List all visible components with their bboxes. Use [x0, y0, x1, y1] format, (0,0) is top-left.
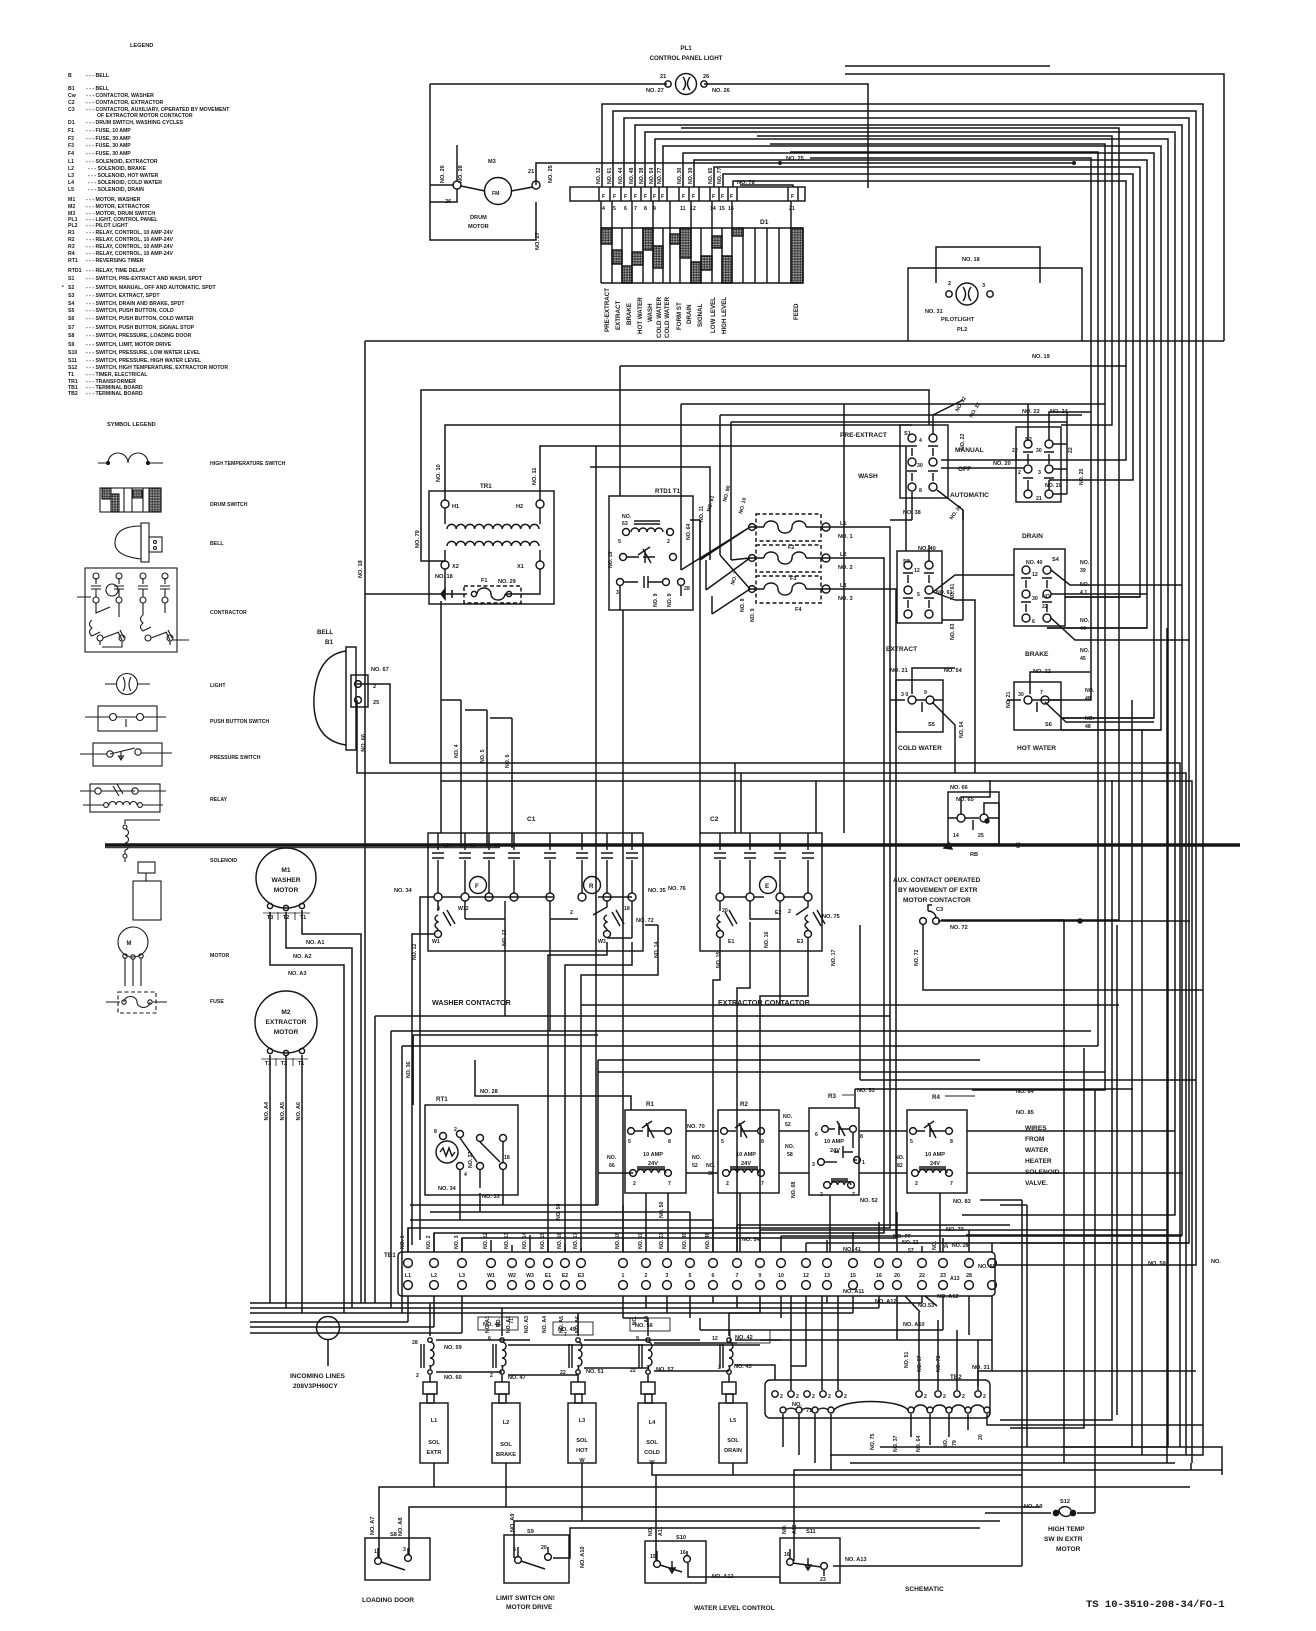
svg-text:NO. 25: NO. 25	[786, 156, 804, 162]
svg-text:NO. 66: NO. 66	[361, 734, 367, 752]
svg-text:20: 20	[894, 1273, 900, 1279]
svg-text:W2: W2	[508, 1273, 516, 1279]
svg-text:R: R	[589, 883, 594, 890]
wire M3 loop	[430, 84, 1074, 240]
svg-text:52: 52	[692, 1163, 698, 1169]
LEGEND-TEXT	[62, 43, 230, 397]
bell B1	[314, 647, 368, 750]
svg-text:LEGEND: LEGEND	[130, 43, 153, 49]
bottom switch labels	[362, 1499, 1085, 1612]
svg-text:21: 21	[528, 169, 534, 175]
svg-text:L2: L2	[503, 1420, 510, 1426]
PL2 labels	[925, 257, 1050, 360]
svg-text:7: 7	[761, 1181, 764, 1187]
svg-text:HIGH TEMPERATURE SWITCH: HIGH TEMPERATURE SWITCH	[210, 461, 286, 467]
svg-text:- - - FUSE, 30 AMP: - - - FUSE, 30 AMP	[86, 143, 131, 149]
wire relay top bundle	[413, 1035, 980, 1205]
svg-text:- - - SWITCH, MANUAL, OFF AND: - - - SWITCH, MANUAL, OFF AND AUTOMATIC,…	[86, 285, 217, 291]
svg-text:2: 2	[416, 1373, 419, 1379]
svg-text:LIMIT SWITCH ON!: LIMIT SWITCH ON!	[496, 1595, 555, 1602]
wire bell NO. 67	[357, 684, 1180, 1447]
wire bus D1 cell 4 to right bus	[602, 104, 1203, 1455]
svg-text:BELL: BELL	[317, 629, 333, 636]
svg-text:NO. A11: NO. A11	[843, 1289, 864, 1295]
svg-text:NO. 48: NO. 48	[629, 167, 635, 184]
S5 S6 labels	[890, 668, 1095, 752]
svg-text:F: F	[661, 194, 664, 200]
svg-text:7: 7	[736, 1273, 739, 1279]
svg-text:12: 12	[914, 568, 920, 574]
svg-text:2: 2	[962, 1394, 965, 1400]
svg-text:24V: 24V	[648, 1161, 658, 1167]
svg-text:NO. 8: NO. 8	[740, 598, 746, 612]
R4 labels	[895, 1089, 1060, 1205]
svg-text:W1: W1	[487, 1273, 495, 1279]
svg-text:NO. 72: NO. 72	[936, 1355, 942, 1372]
svg-text:NO. 30: NO. 30	[677, 167, 683, 184]
svg-text:48: 48	[1085, 696, 1091, 702]
svg-text:B1: B1	[68, 86, 75, 92]
svg-text:L1: L1	[443, 843, 449, 849]
svg-text:NO. A5: NO. A5	[280, 1102, 286, 1120]
svg-text:B1: B1	[325, 639, 333, 646]
svg-text:NO. 25: NO. 25	[1079, 468, 1085, 485]
svg-text:79: 79	[952, 1440, 958, 1446]
svg-text:NO. 70: NO. 70	[687, 1124, 705, 1130]
switch S2	[1016, 412, 1067, 502]
svg-text:7: 7	[634, 206, 637, 212]
svg-text:FROM: FROM	[1025, 1136, 1045, 1143]
svg-text:R4: R4	[932, 1094, 940, 1101]
svg-text:- - - SWITCH, PUSH BUTTON, COL: - - - SWITCH, PUSH BUTTON, COLD	[86, 308, 174, 314]
svg-text:2: 2	[796, 1394, 799, 1400]
svg-text:F2: F2	[788, 545, 795, 551]
svg-text:NO. 45: NO. 45	[682, 1232, 688, 1249]
fuse F1	[438, 586, 521, 603]
svg-text:NO. 59: NO. 59	[444, 1345, 462, 1351]
solenoid L1	[420, 1382, 448, 1463]
svg-text:21: 21	[789, 206, 795, 212]
switch S5	[890, 680, 943, 732]
svg-text:SOL: SOL	[428, 1440, 440, 1446]
wire upper TB1 bundle extensions	[410, 1205, 560, 1220]
svg-text:- - - FUSE, 30 AMP: - - - FUSE, 30 AMP	[86, 136, 131, 142]
svg-text:2: 2	[788, 909, 791, 915]
svg-text:S8: S8	[390, 1532, 397, 1538]
svg-text:F1: F1	[68, 128, 74, 134]
svg-text:TB1: TB1	[384, 1252, 396, 1259]
svg-text:SW IN EXTR: SW IN EXTR	[1044, 1536, 1083, 1543]
svg-text:T1: T1	[300, 915, 307, 921]
push button switch symbol	[98, 706, 157, 731]
svg-text:NO. A6: NO. A6	[296, 1102, 302, 1120]
svg-text:10: 10	[778, 1273, 784, 1279]
wire TB1 upper bundle	[480, 1205, 1189, 1243]
svg-text:NO. 77: NO. 77	[657, 167, 663, 184]
svg-text:14: 14	[953, 833, 959, 839]
svg-text:4: 4	[437, 906, 440, 912]
svg-text:E3: E3	[797, 939, 803, 945]
svg-text:CONTRACTOR: CONTRACTOR	[210, 610, 247, 616]
svg-text:3: 3	[666, 1273, 669, 1279]
svg-text:NO. 51: NO. 51	[904, 1351, 910, 1368]
svg-text:NO. 78: NO. 78	[737, 180, 755, 186]
svg-text:4: 4	[602, 206, 605, 212]
svg-text:2: 2	[718, 1365, 721, 1371]
wire extra mid horizontals	[941, 452, 1049, 460]
svg-text:5: 5	[689, 1273, 692, 1279]
svg-text:8: 8	[950, 1139, 953, 1145]
motor M3	[430, 145, 540, 205]
svg-text:- - - RELAY, CONTROL, 10 AMP-2: - - - RELAY, CONTROL, 10 AMP-24V	[86, 251, 173, 257]
svg-text:PUSH BUTTON SWITCH: PUSH BUTTON SWITCH	[210, 719, 270, 725]
svg-text:S10: S10	[68, 350, 77, 356]
svg-text:NO. 39: NO. 39	[688, 167, 694, 184]
wire below TB1 extra horizontals	[700, 1318, 992, 1371]
wire S5 S6 links	[912, 668, 1154, 773]
svg-text:NO. 42: NO. 42	[735, 1335, 753, 1341]
svg-text:NO. 53: NO. 53	[857, 1088, 875, 1094]
contactor symbol	[85, 568, 177, 652]
wire F2 output L1	[408, 527, 890, 1252]
svg-text:NO. 75: NO. 75	[822, 914, 840, 920]
svg-text:F: F	[613, 194, 616, 200]
TR1 labels	[358, 464, 538, 585]
terminal board TB1	[398, 1252, 996, 1296]
switch S4	[1014, 549, 1065, 626]
svg-text:S5: S5	[68, 308, 74, 314]
svg-text:RTD1 T1: RTD1 T1	[655, 488, 681, 495]
svg-text:5: 5	[628, 1139, 631, 1145]
svg-text:- - - SOLENOID, EXTRACTOR: - - - SOLENOID, EXTRACTOR	[86, 159, 158, 165]
svg-text:MOTOR: MOTOR	[210, 953, 229, 959]
svg-text:L5: L5	[68, 187, 74, 193]
svg-text:HOT: HOT	[576, 1448, 588, 1454]
svg-text:NO.: NO.	[706, 1163, 716, 1169]
svg-text:NO. 4: NO. 4	[454, 744, 460, 758]
svg-text:- - - TIMER, ELECTRICAL: - - - TIMER, ELECTRICAL	[86, 372, 148, 378]
svg-text:16: 16	[784, 1552, 790, 1558]
svg-text:S8: S8	[68, 333, 74, 339]
wire right bus extra 5	[810, 158, 1091, 700]
svg-text:NO. 26: NO. 26	[712, 88, 730, 94]
svg-text:- - - REVERSING TIMER: - - - REVERSING TIMER	[86, 258, 144, 264]
svg-text:- - - FUSE, 30 AMP: - - - FUSE, 30 AMP	[86, 151, 131, 157]
svg-text:- - - SWITCH, PRESSURE, LOADIN: - - - SWITCH, PRESSURE, LOADING DOOR	[86, 333, 191, 339]
motor symbol	[118, 927, 148, 957]
svg-text:2: 2	[667, 539, 670, 545]
svg-text:NO.: NO.	[1211, 1259, 1221, 1265]
svg-text:NO. 46: NO. 46	[483, 1322, 501, 1328]
svg-text:PRE-EXTRACT: PRE-EXTRACT	[604, 288, 611, 332]
wire right bus extra 3	[770, 144, 1105, 1090]
svg-text:F: F	[634, 194, 637, 200]
svg-text:- - - FUSE, 10 AMP: - - - FUSE, 10 AMP	[86, 128, 131, 134]
svg-text:L3: L3	[840, 583, 847, 589]
svg-text:NO. 37: NO. 37	[468, 1151, 474, 1168]
svg-text:NO.: NO.	[648, 1526, 654, 1536]
svg-text:NO. 22: NO. 22	[1033, 669, 1051, 675]
svg-text:DRAIN: DRAIN	[686, 304, 693, 324]
wire S1 bottom drops	[890, 492, 963, 620]
svg-text:NO. 38: NO. 38	[639, 167, 645, 184]
svg-text:30: 30	[917, 463, 923, 469]
svg-text:11: 11	[680, 206, 686, 212]
svg-text:NO. 72: NO. 72	[636, 918, 654, 924]
timer RT1	[425, 1105, 518, 1195]
svg-text:NO.: NO.	[932, 1240, 938, 1250]
coil for L5	[720, 1338, 733, 1374]
svg-text:TR1: TR1	[480, 483, 492, 490]
svg-text:F: F	[602, 194, 605, 200]
svg-text:NO.53: NO.53	[918, 1303, 934, 1309]
switch S10	[645, 1541, 706, 1583]
svg-text:58: 58	[787, 1152, 793, 1158]
svg-text:30: 30	[1036, 448, 1042, 454]
svg-text:F: F	[624, 194, 627, 200]
wire coil feeds	[430, 1296, 760, 1336]
svg-text:NO. 56: NO. 56	[635, 1323, 653, 1329]
wire mid horizontal 467	[590, 467, 710, 560]
svg-text:NO. A12: NO. A12	[712, 1574, 734, 1580]
wire C3 run NO. 72	[923, 921, 1203, 990]
svg-text:FORM ST: FORM ST	[676, 302, 683, 330]
svg-text:10 AMP: 10 AMP	[736, 1152, 756, 1158]
switch S9	[504, 1535, 569, 1583]
svg-text:NO. 72: NO. 72	[950, 925, 968, 931]
svg-text:2: 2	[812, 1394, 815, 1400]
svg-text:F: F	[682, 194, 685, 200]
svg-text:8: 8	[644, 206, 647, 212]
svg-text:E: E	[765, 883, 769, 890]
svg-text:28: 28	[412, 1340, 418, 1346]
svg-text:PL2: PL2	[957, 327, 967, 333]
svg-text:NO.: NO.	[1042, 594, 1052, 600]
svg-text:OFF: OFF	[958, 466, 971, 473]
wire below TB1 bundle	[250, 1296, 922, 1333]
svg-text:26: 26	[703, 74, 709, 80]
svg-text:NO. 67: NO. 67	[371, 667, 389, 673]
svg-text:S11: S11	[68, 358, 77, 364]
svg-text:OF EXTRACTOR MOTOR CONTACTOR: OF EXTRACTOR MOTOR CONTACTOR	[97, 113, 193, 119]
svg-text:NO. 34: NO. 34	[438, 1186, 457, 1192]
wire relay row links bottom	[598, 1172, 1182, 1174]
wire NO. 4 5 6 into C1	[441, 700, 512, 848]
svg-text:C1: C1	[527, 816, 536, 823]
wire bottom bus 1447	[880, 1447, 1222, 1475]
svg-text:NO. 14: NO. 14	[522, 1232, 528, 1249]
svg-text:NO.: NO.	[1080, 648, 1090, 654]
drum switch D1 cam chart	[601, 201, 803, 283]
svg-text:NO. 18: NO. 18	[615, 1232, 621, 1249]
wire S10 leads	[652, 1463, 1022, 1577]
svg-text:BRAKE: BRAKE	[626, 303, 633, 325]
svg-text:PRESSURE SWITCH: PRESSURE SWITCH	[210, 755, 261, 761]
wire bottom bus 1455	[830, 1454, 1043, 1456]
wire mid vertical 596	[595, 446, 597, 1205]
svg-text:TB2: TB2	[68, 391, 78, 397]
switch S1	[900, 400, 963, 520]
svg-text:18: 18	[624, 906, 630, 912]
svg-text:INCOMING LINES: INCOMING LINES	[290, 1373, 346, 1380]
svg-text:2: 2	[454, 1127, 457, 1133]
svg-text:NO.: NO.	[1085, 688, 1095, 694]
svg-text:2: 2	[924, 1394, 927, 1400]
svg-text:C3: C3	[68, 107, 75, 113]
switch S6	[1007, 682, 1061, 730]
wire relay band extra horizontals	[581, 925, 1196, 1080]
svg-text:NO. 12: NO. 12	[483, 1232, 489, 1249]
wire right low verticals	[980, 628, 1191, 1566]
svg-text:NO. 50: NO. 50	[556, 1203, 562, 1220]
svg-text:NO. 22: NO. 22	[1022, 409, 1040, 415]
svg-text:S2: S2	[1025, 437, 1032, 443]
svg-text:T2: T2	[283, 915, 290, 921]
svg-text:NO. A4: NO. A4	[264, 1101, 270, 1120]
svg-text:- - - MOTOR, WASHER: - - - MOTOR, WASHER	[86, 197, 141, 203]
R2 labels	[692, 1101, 797, 1198]
svg-text:NO. 9: NO. 9	[750, 608, 756, 622]
svg-text:SOLENOID: SOLENOID	[210, 858, 237, 864]
svg-text:S9: S9	[68, 342, 74, 348]
svg-text:NO. 19: NO. 19	[638, 1232, 644, 1249]
svg-text:NO. 13: NO. 13	[502, 929, 508, 946]
svg-text:RT1: RT1	[436, 1096, 448, 1103]
svg-text:M2: M2	[68, 204, 75, 210]
svg-text:L1: L1	[431, 1418, 438, 1424]
svg-text:22: 22	[560, 1370, 566, 1376]
svg-text:S7: S7	[68, 325, 74, 331]
RTD1 labels	[608, 488, 692, 607]
svg-text:2: 2	[915, 1181, 918, 1187]
svg-text:EXTRACTOR CONTACTOR: EXTRACTOR CONTACTOR	[718, 998, 811, 1007]
svg-text:3: 3	[403, 1547, 406, 1553]
svg-text:12: 12	[1032, 572, 1038, 578]
svg-text:- - - SWITCH, PRESSURE, LOW WA: - - - SWITCH, PRESSURE, LOW WATER LEVEL	[86, 350, 201, 356]
svg-text:A11: A11	[658, 1527, 664, 1536]
svg-text:66: 66	[609, 1163, 615, 1169]
svg-text:WASHER CONTACTOR: WASHER CONTACTOR	[432, 998, 512, 1007]
wire F3 output L2	[434, 558, 884, 1252]
svg-text:NO. 2: NO. 2	[838, 565, 853, 571]
motor M2 extractor	[255, 991, 317, 1056]
svg-text:NO. 83: NO. 83	[953, 1199, 971, 1205]
svg-text:BELL: BELL	[210, 541, 224, 547]
svg-text:F: F	[712, 194, 715, 200]
svg-text:15: 15	[719, 206, 725, 212]
svg-text:NO. A13: NO. A13	[845, 1557, 867, 1563]
svg-text:S1: S1	[68, 276, 74, 282]
svg-text:- - - SWITCH, LIMIT, MOTOR DRI: - - - SWITCH, LIMIT, MOTOR DRIVE	[86, 342, 172, 348]
svg-text:TB2: TB2	[950, 1374, 962, 1381]
svg-text:4 1: 4 1	[1080, 590, 1087, 596]
svg-text:SCHEMATIC: SCHEMATIC	[905, 1586, 944, 1593]
svg-text:S12: S12	[68, 365, 77, 371]
svg-text:NO. 28: NO. 28	[480, 1089, 498, 1095]
svg-text:NO. 32: NO. 32	[596, 167, 602, 184]
svg-text:NO. 31: NO. 31	[925, 309, 943, 315]
svg-text:NO. 52: NO. 52	[860, 1198, 878, 1204]
wire PL1 feed left	[430, 84, 868, 188]
svg-text:- - - SOLENOID, DRAIN: - - - SOLENOID, DRAIN	[88, 187, 144, 193]
svg-text:NO. 29: NO. 29	[498, 579, 516, 585]
wire RTD1 down	[622, 610, 624, 1252]
wire C1 left drops	[412, 897, 434, 1245]
svg-text:22: 22	[919, 1273, 925, 1279]
svg-text:9: 9	[759, 1273, 762, 1279]
coil labels	[412, 1317, 770, 1381]
svg-text:NO. 60: NO. 60	[444, 1375, 462, 1381]
svg-text:E1: E1	[545, 1273, 551, 1279]
svg-text:TS 10-3510-208-34/FO-1: TS 10-3510-208-34/FO-1	[1086, 1599, 1225, 1611]
solenoid labels	[427, 1418, 742, 1466]
wire M1 leads	[270, 910, 361, 1313]
svg-text:2: 2	[633, 1181, 636, 1187]
AUX C3 labels	[893, 877, 981, 966]
svg-text:NO. 15: NO. 15	[540, 1232, 546, 1249]
svg-text:18: 18	[504, 1155, 510, 1161]
svg-text:NO. A7: NO. A7	[370, 1517, 376, 1535]
svg-text:R1: R1	[68, 230, 75, 236]
fuse symbol	[118, 992, 156, 1013]
relay R3	[809, 1108, 860, 1195]
svg-text:NO. 85: NO. 85	[1016, 1110, 1034, 1116]
M3 labels	[440, 159, 554, 250]
svg-text:3: 3	[982, 283, 985, 289]
svg-text:A12: A12	[792, 1524, 798, 1534]
svg-text:SOL: SOL	[500, 1442, 512, 1448]
high temperature switch symbol	[98, 453, 163, 463]
svg-text:NO. 61: NO. 61	[936, 590, 953, 596]
wire bus D1 cell 6	[624, 118, 1189, 1243]
svg-text:NO. 19: NO. 19	[1032, 354, 1050, 360]
svg-text:3: 3	[616, 590, 619, 596]
svg-text:NO. 72: NO. 72	[914, 949, 920, 966]
svg-text:S5: S5	[928, 722, 935, 728]
TB2 labels	[780, 1351, 990, 1452]
svg-text:L1: L1	[405, 1273, 411, 1279]
terminal board TB2	[765, 1380, 990, 1418]
svg-text:- - - SOLENOID, COLD WATER: - - - SOLENOID, COLD WATER	[88, 180, 162, 186]
svg-text:EXTRACTOR: EXTRACTOR	[266, 1019, 307, 1026]
svg-text:SOL: SOL	[727, 1438, 739, 1444]
svg-text:63: 63	[622, 521, 628, 527]
svg-text:F4: F4	[795, 607, 802, 613]
svg-text:NO. 54: NO. 54	[959, 721, 965, 738]
svg-text:E2: E2	[775, 910, 781, 916]
svg-text:- - - CONTACTOR, EXTRACTOR: - - - CONTACTOR, EXTRACTOR	[86, 100, 163, 106]
wire TB2 NO31	[978, 1371, 1196, 1386]
C2 labels	[668, 816, 840, 1007]
svg-text:W3: W3	[598, 939, 606, 945]
svg-text:71: 71	[806, 1408, 812, 1414]
svg-text:- - - BELL: - - - BELL	[86, 86, 110, 92]
svg-text:2: 2	[983, 1394, 986, 1400]
svg-text:DRAIN: DRAIN	[1022, 533, 1043, 540]
svg-text:R3: R3	[828, 1093, 836, 1100]
relay R2	[718, 1110, 779, 1193]
RB labels	[950, 785, 1022, 858]
svg-text:F: F	[475, 883, 479, 890]
svg-text:M: M	[127, 941, 132, 947]
wire coil to solenoid	[430, 1375, 729, 1382]
svg-text:10 AMP: 10 AMP	[824, 1139, 844, 1145]
svg-text:L3: L3	[579, 1418, 586, 1424]
svg-text:RT1: RT1	[68, 258, 78, 264]
svg-text:71: 71	[509, 1318, 515, 1324]
svg-text:NO. A1: NO. A1	[306, 940, 324, 946]
svg-text:AUTOMATIC: AUTOMATIC	[950, 492, 989, 499]
